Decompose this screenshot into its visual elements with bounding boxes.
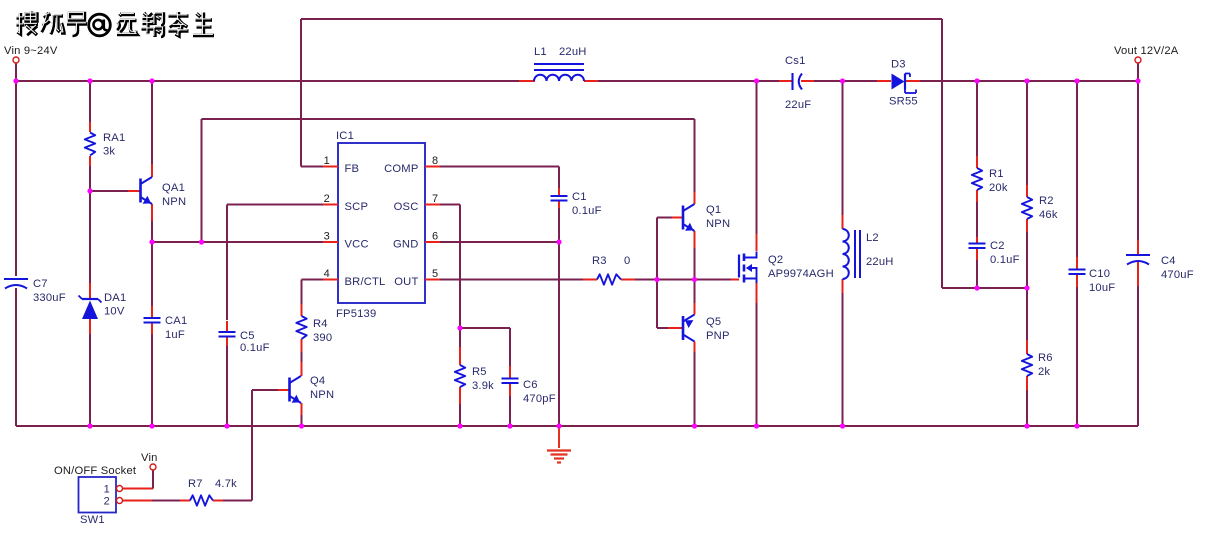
svg-text:C5: C5 [240, 330, 255, 342]
wire rail segment B (L1 to Cs1) [584, 80, 792, 82]
wire Vin rail segment A [16, 63, 535, 81]
wire R1 branch [976, 81, 978, 244]
label Vin (socket) [141, 452, 158, 464]
label R3 0 [592, 255, 630, 267]
svg-text:Q2: Q2 [768, 254, 783, 266]
wire C1 bottom [558, 200, 560, 242]
wire top feedback bypass [301, 19, 942, 288]
wire Q5 emitter up [694, 280, 696, 315]
wire FB pin1 riser [301, 19, 323, 167]
pin 4 BR/CTL stub [323, 279, 338, 281]
svg-text:R1: R1 [989, 168, 1004, 180]
wire SCP from C5 [227, 205, 323, 427]
wire ground rail [16, 425, 1138, 427]
svg-text:Vin: Vin [141, 452, 158, 464]
resistor RA1 [85, 133, 95, 156]
wire R7 left stub [180, 500, 190, 502]
svg-text:0.1uF: 0.1uF [572, 205, 602, 217]
svg-text:OSC: OSC [394, 201, 419, 213]
SW1 pin 1 circle [117, 486, 123, 492]
pin 3 VCC stub [323, 241, 338, 243]
svg-text:330uF: 330uF [33, 292, 66, 304]
transistor Q4 [290, 376, 302, 403]
wire SW1 pin1 to Vin term [123, 470, 153, 489]
wire R7 right stub [213, 500, 223, 502]
pin number 7 [432, 193, 438, 205]
label Vout 12V/2A [1114, 45, 1179, 57]
svg-text:1uF: 1uF [165, 329, 185, 341]
svg-text:R4: R4 [313, 318, 328, 330]
wire rail segment C (Cs1 to D3) [801, 80, 886, 82]
wire Cs1 left stub [779, 80, 792, 82]
svg-text:AP9974AGH: AP9974AGH [768, 268, 834, 280]
svg-text:4.7k: 4.7k [215, 478, 237, 490]
wire Q4 emitter to ground [301, 403, 303, 426]
wire Q5 collector to ground [694, 342, 696, 427]
svg-text:PNP: PNP [706, 330, 730, 342]
svg-text:0.1uF: 0.1uF [240, 342, 270, 354]
svg-text:C6: C6 [523, 379, 538, 391]
pin number 8 [432, 155, 438, 167]
wire Q4 base run [252, 390, 290, 501]
wire Q1 base link [657, 218, 683, 280]
pin name OSC [394, 201, 419, 213]
svg-text:DA1: DA1 [104, 292, 126, 304]
svg-text:R2: R2 [1039, 195, 1054, 207]
wire CA1 branch [151, 242, 153, 426]
label C4 470uF [1161, 255, 1194, 281]
label Q5 PNP [706, 316, 730, 342]
svg-text:CA1: CA1 [165, 315, 187, 327]
svg-text:22uH: 22uH [866, 256, 894, 268]
wire GND run [440, 241, 559, 243]
SW1 pin 2 circle [117, 498, 123, 504]
label SW1 [80, 514, 105, 526]
svg-text:390: 390 [313, 332, 332, 344]
svg-text:5: 5 [432, 268, 438, 280]
label L2 22uH [866, 232, 894, 268]
svg-text:0.1uF: 0.1uF [990, 254, 1020, 266]
wire rail segment D (D3 to Vout) [906, 80, 1138, 82]
svg-text:SW1: SW1 [80, 514, 105, 526]
svg-text:22uF: 22uF [785, 99, 811, 111]
wire R2 branch [1026, 81, 1028, 288]
svg-text:SR55: SR55 [889, 96, 918, 108]
svg-text:QA1: QA1 [162, 182, 185, 194]
svg-text:2: 2 [324, 193, 330, 205]
SW1 pin 2 number [104, 496, 110, 508]
label R1 20k [989, 168, 1008, 194]
inductor L2 [843, 229, 861, 279]
svg-text:NPN: NPN [706, 218, 730, 230]
svg-text:10V: 10V [104, 306, 125, 318]
resistor R4 [296, 316, 306, 339]
label RA1 3k [103, 132, 125, 158]
svg-text:L1: L1 [534, 46, 547, 58]
transistor Q1 [683, 204, 695, 231]
wire GND drop to ground [558, 242, 560, 448]
pin name OUT [394, 276, 418, 288]
wire D3 left stub [877, 80, 891, 82]
label CA1 1uF [165, 315, 187, 341]
node Vout terminal [1135, 57, 1141, 63]
svg-text:4: 4 [324, 268, 330, 280]
svg-text:OUT: OUT [394, 276, 418, 288]
wire C6 branch [460, 328, 510, 426]
svg-text:3: 3 [324, 231, 330, 243]
svg-text:7: 7 [432, 193, 438, 205]
svg-text:C1: C1 [572, 191, 587, 203]
svg-text:3.9k: 3.9k [472, 380, 494, 392]
pin 1 FB stub [323, 166, 338, 168]
svg-text:BR/CTL: BR/CTL [345, 276, 386, 288]
capacitor C6 [502, 379, 519, 384]
label Cs1 22uF [785, 55, 811, 111]
svg-text:Vout 12V/2A: Vout 12V/2A [1114, 45, 1179, 57]
wire RA1 branch [89, 81, 91, 426]
wire QA1 collector riser [151, 81, 153, 177]
pin 2 SCP stub [323, 204, 338, 206]
svg-text:6: 6 [432, 231, 438, 243]
label QA1 NPN [162, 182, 186, 208]
svg-text:2k: 2k [1038, 366, 1050, 378]
svg-text:FB: FB [345, 163, 360, 175]
pin number 2 [324, 193, 330, 205]
capacitor C2 [969, 244, 986, 249]
wire feedback lower run [942, 287, 1027, 289]
svg-text:10uF: 10uF [1089, 282, 1115, 294]
pin number 3 [324, 231, 330, 243]
svg-text:D3: D3 [891, 59, 906, 71]
svg-text:IC1: IC1 [336, 130, 354, 142]
svg-text:NPN: NPN [310, 389, 334, 401]
label L1 22uH [534, 46, 587, 58]
svg-text:R5: R5 [472, 366, 487, 378]
wire COMP to C1 [440, 167, 559, 196]
wire L2 branch [842, 81, 844, 426]
inductor L1 [534, 64, 584, 81]
zener diode DA1 [79, 296, 102, 320]
wire R3 right stub [621, 279, 657, 281]
svg-text:1: 1 [104, 484, 110, 496]
capacitor Cs1 [793, 73, 803, 90]
wire L1 right stub [584, 80, 598, 82]
svg-text:C10: C10 [1089, 268, 1110, 280]
IC1 designator [336, 130, 354, 142]
label Q1 NPN [706, 204, 730, 230]
capacitor C4 [1126, 255, 1150, 265]
pin number 4 [324, 268, 330, 280]
wire Cs1 right stub [801, 80, 814, 82]
svg-text:C4: C4 [1161, 255, 1176, 267]
wire Q5 base link [657, 280, 683, 329]
capacitor C7 [4, 279, 28, 289]
pin name SCP [345, 201, 369, 213]
svg-text:20k: 20k [989, 182, 1008, 194]
wire Q2 source drop [756, 282, 758, 426]
wire Q1 collector riser [694, 119, 696, 204]
svg-text:L2: L2 [866, 232, 879, 244]
node Vin terminal [13, 57, 19, 63]
svg-text:ON/OFF Socket: ON/OFF Socket [54, 465, 137, 477]
svg-text:C7: C7 [33, 278, 48, 290]
pin name BR/CTL [345, 276, 386, 288]
label R5 3.9k [472, 366, 494, 392]
op-amp U1 IC1 FP5139 box [338, 143, 425, 303]
svg-text:Q1: Q1 [706, 204, 721, 216]
pin 5 OUT stub [425, 279, 440, 281]
wire QA1 base [90, 190, 140, 192]
label DA1 10V [104, 292, 126, 318]
label C10 10uF [1089, 268, 1115, 294]
diode D3 [892, 74, 917, 94]
pin name FB [345, 163, 360, 175]
wire driver node run [657, 279, 739, 281]
svg-text:Q5: Q5 [706, 316, 721, 328]
svg-text:470pF: 470pF [523, 393, 556, 405]
wire VCC run [152, 241, 323, 243]
wire R7 to Q4 [223, 500, 252, 502]
svg-text:2: 2 [104, 496, 110, 508]
connector SW1 box [79, 477, 117, 513]
svg-text:R7: R7 [188, 478, 203, 490]
wire C10 branch [1076, 81, 1078, 426]
capacitor C1 [551, 196, 568, 201]
wire C4 branch [1137, 63, 1139, 426]
label C6 470pF [523, 379, 556, 405]
resistor R2 [1022, 197, 1032, 219]
capacitor C10 [1069, 270, 1086, 275]
svg-text:RA1: RA1 [103, 132, 125, 144]
resistor R6 [1022, 354, 1032, 376]
label C5 0.1uF [240, 330, 270, 354]
svg-text:22uH: 22uH [559, 46, 587, 58]
pin name COMP [384, 163, 418, 175]
wire C2 bottom link [976, 248, 978, 288]
svg-text:VCC: VCC [345, 239, 369, 251]
label C1 0.1uF [572, 191, 602, 217]
label R2 46k [1039, 195, 1058, 221]
wire BR/CTL to R4 [302, 280, 324, 317]
wire QA1 emitter drop [151, 204, 153, 242]
label ON/OFF Socket [54, 465, 137, 477]
SW1 pin 1 number [104, 484, 110, 496]
svg-text:GND: GND [393, 239, 418, 251]
wire R6 branch [1026, 288, 1028, 426]
wire R4 to Q4 collector [301, 339, 303, 376]
capacitor CA1 [144, 318, 161, 323]
wire Q2 drain riser [756, 81, 758, 251]
wire L1 left stub [519, 80, 535, 82]
label Q4 NPN [310, 375, 334, 401]
label Q2 AP9974AGH [768, 254, 834, 280]
transistor Q5 [683, 315, 695, 342]
svg-text:Q4: Q4 [310, 375, 325, 387]
svg-text:0: 0 [624, 255, 630, 267]
ground [547, 451, 571, 463]
label Vin 9~24V [4, 45, 58, 57]
svg-text:3k: 3k [103, 146, 115, 158]
pin 8 COMP stub [425, 166, 440, 168]
wire Vin drop to C7 [15, 81, 17, 426]
svg-text:SCP: SCP [345, 201, 369, 213]
svg-text:470uF: 470uF [1161, 269, 1194, 281]
label R6 2k [1038, 352, 1053, 378]
svg-text:8: 8 [432, 155, 438, 167]
wire Q1 emitter drop [694, 231, 696, 280]
resistor R5 [455, 365, 465, 387]
pin name VCC [345, 239, 369, 251]
svg-text:FP5139: FP5139 [336, 308, 376, 320]
svg-text:COMP: COMP [384, 163, 418, 175]
wire D3 right stub [906, 80, 920, 82]
svg-text:Vin 9~24V: Vin 9~24V [4, 45, 58, 57]
wire OSC run [440, 205, 460, 329]
pin 6 GND stub [425, 241, 440, 243]
label R4 390 [313, 318, 332, 344]
watermark title sohu [15, 10, 214, 37]
pin number 6 [432, 231, 438, 243]
label C2 0.1uF [990, 240, 1020, 266]
transistor QA1 [141, 177, 153, 204]
pin number 1 [324, 155, 330, 167]
pin 7 OSC stub [425, 204, 440, 206]
pin name GND [393, 239, 418, 251]
IC1 part number FP5139 [336, 308, 376, 320]
wire y119 over IC [202, 119, 695, 242]
node Vin socket terminal [150, 464, 156, 470]
label D3 SR55 [889, 59, 918, 108]
resistor R7 [190, 495, 213, 505]
svg-text:Cs1: Cs1 [785, 55, 806, 67]
svg-text:NPN: NPN [162, 196, 186, 208]
svg-text:R3: R3 [592, 255, 607, 267]
svg-text:1: 1 [324, 155, 330, 167]
svg-text:46k: 46k [1039, 209, 1058, 221]
label R7 4.7k [188, 478, 237, 490]
capacitor C5 [219, 332, 236, 337]
svg-text:C2: C2 [990, 240, 1005, 252]
resistor R1 [972, 168, 982, 190]
label C7 330uF [33, 278, 66, 304]
wire SW1 pin2 lead [123, 500, 180, 502]
svg-text:R6: R6 [1038, 352, 1053, 364]
mosfet Q2 [739, 252, 757, 284]
wire R5 branch [459, 328, 461, 426]
resistor R3 [597, 274, 621, 284]
wire OUT run [440, 279, 597, 281]
pin number 5 [432, 268, 438, 280]
